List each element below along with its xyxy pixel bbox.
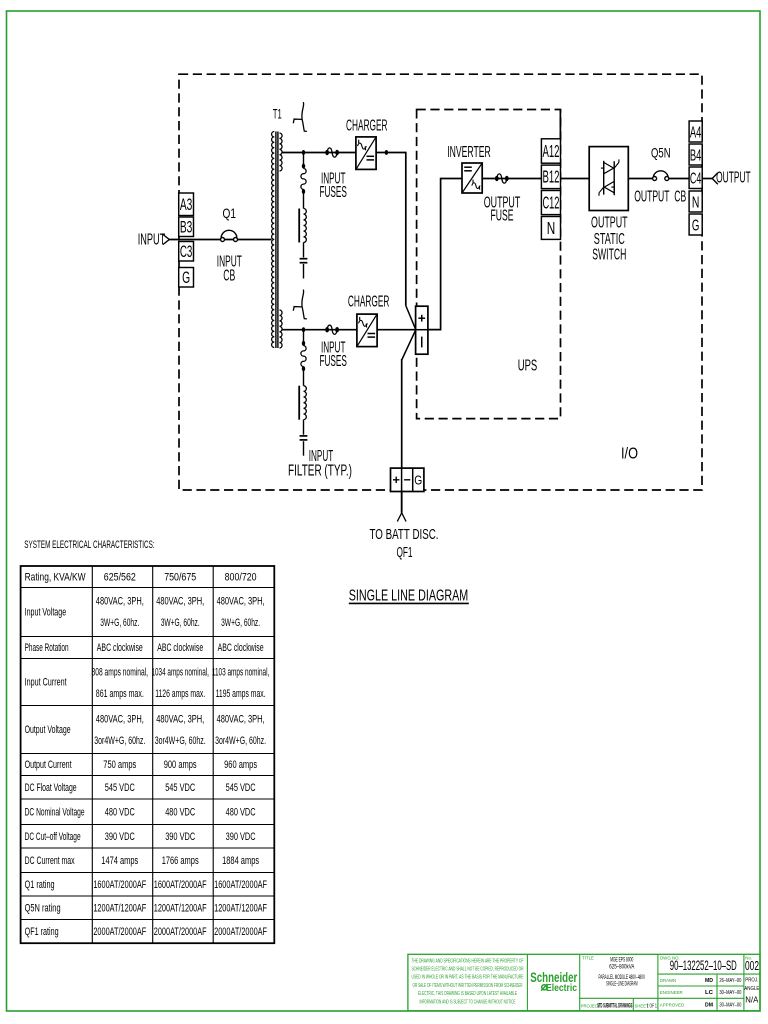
svg-text:Electric: Electric (546, 983, 577, 994)
svg-text:I/O: I/O (621, 446, 638, 463)
svg-text:2000AT/2000AF: 2000AT/2000AF (93, 926, 146, 938)
svg-text:ELECTRIC. THIS DRAWING IS BASE: ELECTRIC. THIS DRAWING IS BASED UPON LAT… (418, 991, 517, 997)
svg-text:Input Current: Input Current (25, 677, 67, 689)
svg-text:545 VDC: 545 VDC (226, 782, 256, 794)
svg-text:390 VDC: 390 VDC (165, 831, 195, 843)
svg-text:THE DRAWING AND SPECIFICATIONS: THE DRAWING AND SPECIFICATIONS HEREIN AR… (412, 958, 524, 964)
svg-text:480VAC, 3PH,: 480VAC, 3PH, (217, 714, 265, 726)
svg-text:B3: B3 (180, 219, 193, 237)
svg-text:480 VDC: 480 VDC (105, 806, 135, 818)
svg-text:Output Current: Output Current (25, 759, 72, 771)
svg-text:3or4W+G, 60hz.: 3or4W+G, 60hz. (215, 735, 266, 747)
svg-text:26–MAY–00: 26–MAY–00 (719, 978, 741, 984)
svg-text:PROJ.: PROJ. (745, 978, 758, 984)
svg-text:625/562: 625/562 (104, 571, 136, 583)
svg-text:1 OF 1: 1 OF 1 (647, 1004, 657, 1010)
svg-text:1474 amps: 1474 amps (101, 855, 138, 867)
svg-text:750/675: 750/675 (164, 571, 196, 583)
svg-text:INVERTER: INVERTER (447, 144, 491, 161)
svg-text:QF1 rating: QF1 rating (25, 926, 59, 938)
svg-text:545 VDC: 545 VDC (165, 782, 195, 794)
svg-text:OUTPUT: OUTPUT (591, 215, 628, 232)
svg-text:DC Cut–off Voltage: DC Cut–off Voltage (25, 831, 81, 843)
svg-text:FUSES: FUSES (319, 184, 347, 201)
svg-text:625–800kVA: 625–800kVA (609, 963, 635, 970)
svg-text:808 amps nominal,: 808 amps nominal, (92, 667, 149, 679)
svg-text:G: G (692, 217, 700, 234)
svg-text:CHARGER: CHARGER (346, 117, 388, 134)
svg-text:3W+G, 60hz.: 3W+G, 60hz. (100, 617, 139, 629)
svg-text:Q1: Q1 (223, 205, 237, 221)
svg-text:N/A: N/A (745, 995, 758, 1005)
svg-text:Rating, KVA/KW: Rating, KVA/KW (25, 571, 86, 583)
svg-text:B12: B12 (542, 167, 559, 187)
svg-text:1200AT/1200AF: 1200AT/1200AF (93, 902, 146, 914)
svg-text:Q1 rating: Q1 rating (25, 879, 55, 891)
svg-text:960 amps: 960 amps (224, 759, 257, 771)
svg-text:1600AT/2000AF: 1600AT/2000AF (154, 879, 207, 891)
svg-text:1600AT/2000AF: 1600AT/2000AF (93, 879, 146, 891)
svg-text:TO BATT DISC.: TO BATT DISC. (370, 526, 439, 543)
svg-text:DC Current max: DC Current max (25, 855, 75, 867)
svg-text:545 VDC: 545 VDC (105, 782, 135, 794)
svg-text:LC: LC (705, 990, 714, 996)
svg-text:B4: B4 (690, 147, 702, 164)
svg-text:A12: A12 (542, 141, 559, 161)
svg-text:1034 amps nominal,: 1034 amps nominal, (151, 667, 209, 679)
svg-text:ABC clockwise: ABC clockwise (157, 642, 203, 654)
svg-text:3or4W+G, 60hz.: 3or4W+G, 60hz. (155, 735, 206, 747)
svg-text:480VAC, 3PH,: 480VAC, 3PH, (96, 596, 144, 608)
svg-text:1126 amps max.: 1126 amps max. (155, 688, 205, 700)
svg-text:Output Voltage: Output Voltage (25, 724, 71, 736)
svg-text:C4: C4 (690, 171, 702, 188)
svg-text:ANGLE: ANGLE (744, 986, 759, 992)
svg-text:TITLE: TITLE (582, 955, 594, 960)
svg-text:N: N (547, 218, 556, 238)
svg-text:APPROVED: APPROVED (660, 1002, 684, 1007)
svg-text:ENGINEER: ENGINEER (660, 990, 683, 995)
svg-text:G: G (182, 269, 190, 287)
svg-text:480 VDC: 480 VDC (226, 806, 256, 818)
svg-text:A3: A3 (180, 196, 193, 214)
svg-text:1103 amps nominal,: 1103 amps nominal, (212, 667, 270, 679)
svg-text:SYSTEM ELECTRICAL CHARACTERIST: SYSTEM ELECTRICAL CHARACTERISTICS: (24, 539, 154, 551)
svg-text:30–MAY–00: 30–MAY–00 (719, 990, 741, 996)
svg-text:CHARGER: CHARGER (348, 294, 390, 311)
svg-text:1884 amps: 1884 amps (222, 855, 259, 867)
svg-text:OUTPUT: OUTPUT (716, 170, 751, 187)
svg-text:INFORMATION AND IS SUBJECT TO: INFORMATION AND IS SUBJECT TO CHANGE WIT… (420, 999, 516, 1005)
svg-text:G: G (414, 473, 422, 488)
svg-text:750 amps: 750 amps (103, 759, 136, 771)
svg-text:2000AT/2000AF: 2000AT/2000AF (214, 926, 267, 938)
svg-text:861 amps max.: 861 amps max. (96, 688, 144, 700)
svg-text:UPS: UPS (518, 358, 538, 375)
svg-text:480VAC, 3PH,: 480VAC, 3PH, (96, 714, 144, 726)
svg-text:3or4W+G, 60hz.: 3or4W+G, 60hz. (94, 735, 145, 747)
svg-text:C12: C12 (542, 192, 559, 212)
svg-text:900 amps: 900 amps (164, 759, 197, 771)
svg-text:ABC clockwise: ABC clockwise (97, 642, 143, 654)
svg-text:Q5N: Q5N (651, 145, 671, 161)
svg-text:MD: MD (705, 978, 713, 984)
svg-text:Input Voltage: Input Voltage (25, 607, 67, 619)
svg-text:1200AT/1200AF: 1200AT/1200AF (154, 902, 207, 914)
svg-text:480VAC, 3PH,: 480VAC, 3PH, (156, 714, 204, 726)
svg-text:STD SUBMITTAL DRAWINGS: STD SUBMITTAL DRAWINGS (597, 1004, 632, 1010)
svg-text:FUSE: FUSE (491, 208, 514, 225)
svg-text:1600AT/2000AF: 1600AT/2000AF (214, 879, 267, 891)
svg-text:1200AT/1200AF: 1200AT/1200AF (214, 902, 267, 914)
svg-text:Q5N rating: Q5N rating (25, 902, 61, 914)
svg-text:A4: A4 (690, 124, 702, 141)
svg-text:DC Float Voltage: DC Float Voltage (25, 782, 77, 794)
svg-text:CB: CB (223, 268, 235, 285)
svg-text:C3: C3 (180, 243, 193, 261)
svg-text:480VAC, 3PH,: 480VAC, 3PH, (156, 596, 204, 608)
svg-text:390 VDC: 390 VDC (226, 831, 256, 843)
svg-text:SINGLE LINE DIAGRAM: SINGLE LINE DIAGRAM (349, 587, 469, 604)
svg-text:002: 002 (745, 958, 759, 973)
svg-text:90–132252–10–SD: 90–132252–10–SD (670, 958, 737, 973)
svg-text:N: N (692, 194, 700, 211)
svg-text:DRAWN: DRAWN (660, 978, 676, 983)
svg-text:30–MAY–00: 30–MAY–00 (719, 1002, 741, 1008)
svg-text:OR SALE OF ITEMS WITHOUT WRITT: OR SALE OF ITEMS WITHOUT WRITTEN PERMISS… (413, 983, 523, 989)
svg-text:DC Nominal Voltage: DC Nominal Voltage (25, 806, 85, 818)
svg-text:3W+G, 60hz.: 3W+G, 60hz. (221, 617, 260, 629)
svg-text:FUSES: FUSES (319, 353, 347, 370)
svg-text:Phase Rotation: Phase Rotation (25, 642, 69, 654)
svg-text:800/720: 800/720 (225, 571, 257, 583)
svg-text:QF1: QF1 (397, 544, 413, 561)
svg-text:SWITCH: SWITCH (592, 247, 626, 264)
svg-text:1766 amps: 1766 amps (162, 855, 199, 867)
svg-text:480VAC, 3PH,: 480VAC, 3PH, (217, 596, 265, 608)
svg-text:SCHNEIDER ELECTRIC AND SHALL N: SCHNEIDER ELECTRIC AND SHALL NOT BE COPI… (412, 967, 524, 973)
svg-text:STATIC: STATIC (594, 231, 625, 248)
svg-text:390 VDC: 390 VDC (105, 831, 135, 843)
svg-text:ABC clockwise: ABC clockwise (218, 642, 264, 654)
svg-text:DM: DM (705, 1002, 713, 1008)
svg-text:3W+G, 60hz.: 3W+G, 60hz. (161, 617, 200, 629)
svg-text:2000AT/2000AF: 2000AT/2000AF (154, 926, 207, 938)
svg-text:USED IN WHOLE OR IN PART, AS T: USED IN WHOLE OR IN PART, AS THE BASIS F… (412, 975, 524, 981)
svg-text:480 VDC: 480 VDC (165, 806, 195, 818)
svg-text:FILTER (TYP.): FILTER (TYP.) (288, 463, 352, 480)
svg-text:T1: T1 (273, 106, 282, 122)
svg-text:INPUT: INPUT (138, 232, 166, 249)
svg-text:1195 amps max.: 1195 amps max. (216, 688, 266, 700)
svg-text:SINGLE–LINE DIAGRAM: SINGLE–LINE DIAGRAM (606, 980, 638, 987)
svg-text:OUTPUT CB: OUTPUT CB (634, 189, 686, 206)
